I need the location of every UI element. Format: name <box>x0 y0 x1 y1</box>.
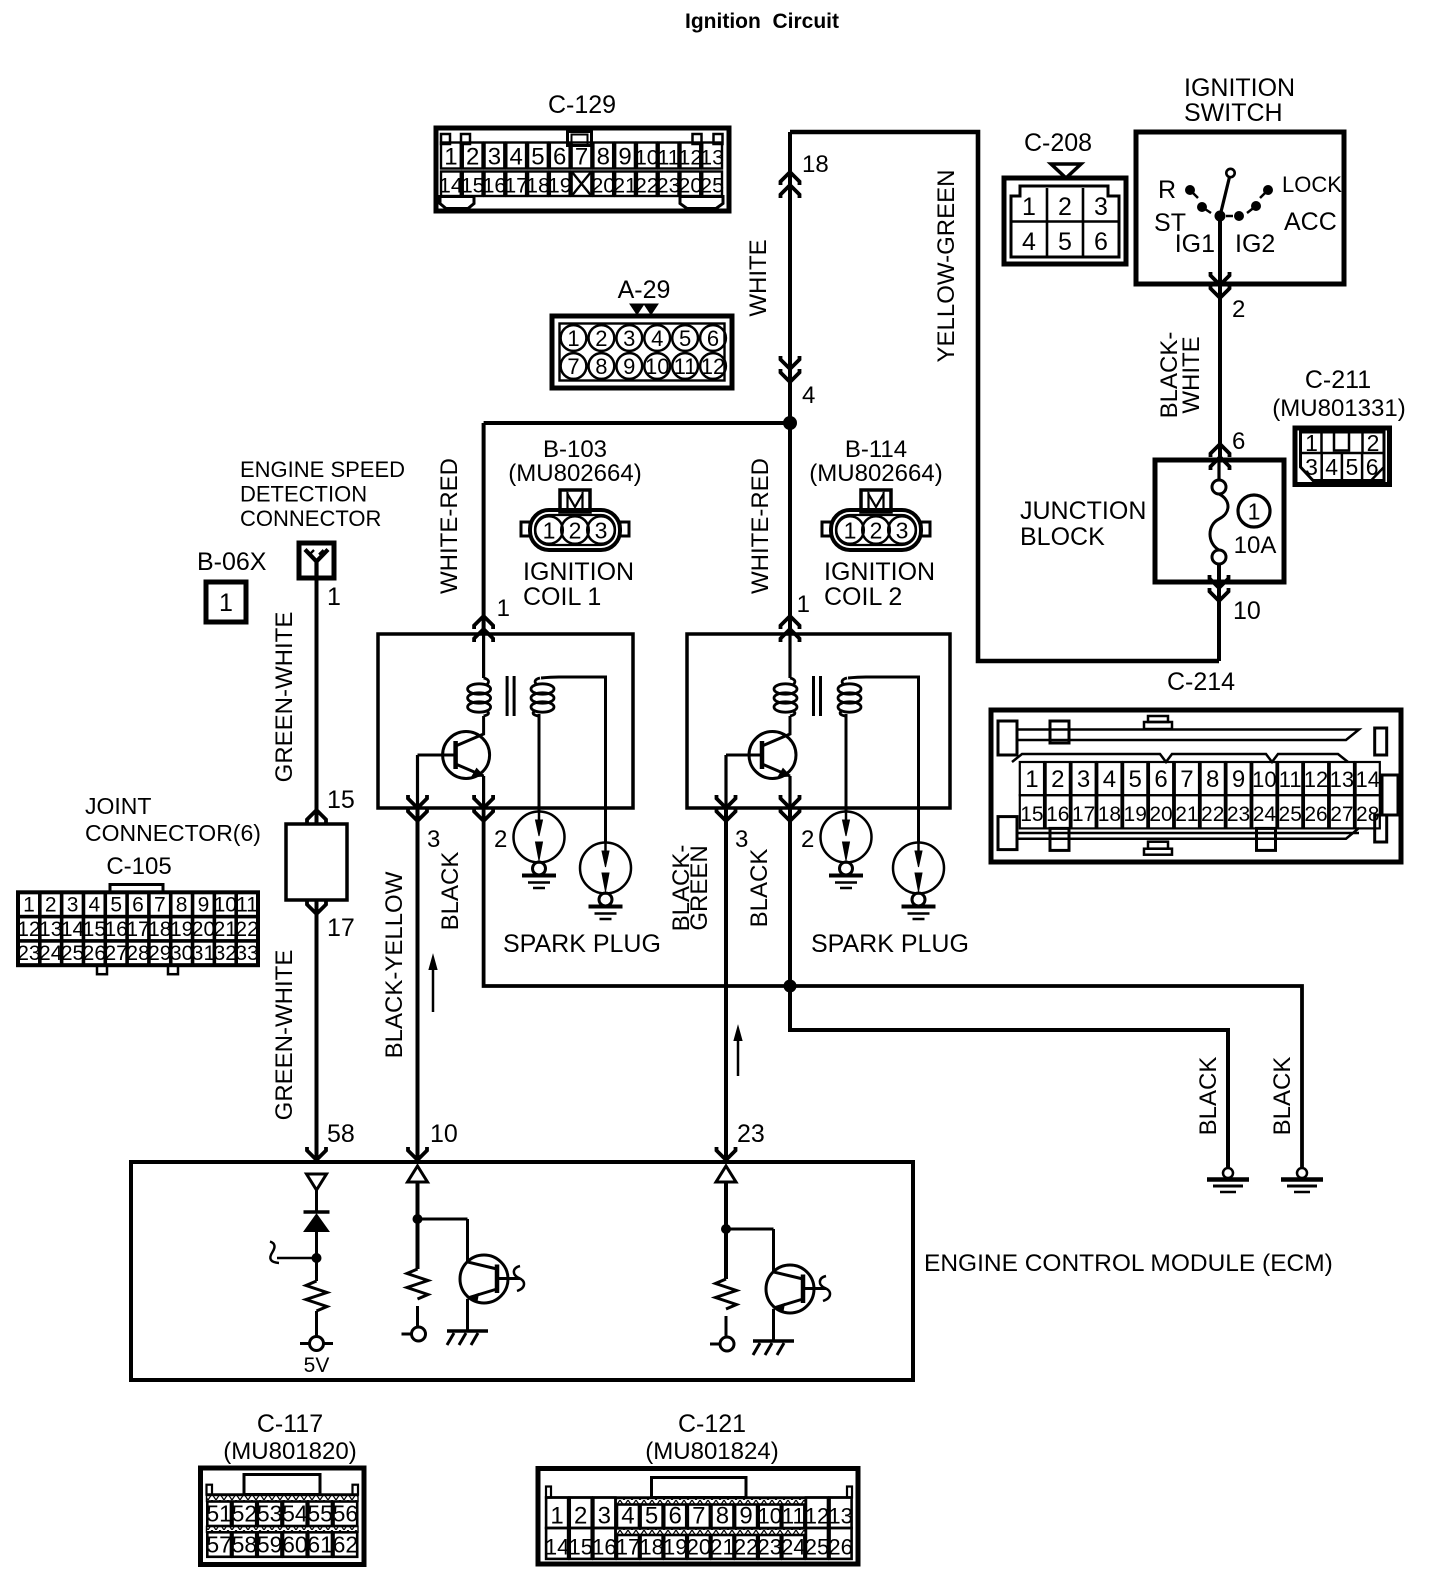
label ENGINE CONTROL MODULE (ECM) <box>924 1250 1333 1277</box>
svg-text:A-29: A-29 <box>618 276 671 304</box>
svg-text:17: 17 <box>126 918 149 941</box>
svg-text:JUNCTION: JUNCTION <box>1020 497 1146 525</box>
svg-text:17: 17 <box>1072 803 1095 826</box>
pin 18 label <box>802 151 829 178</box>
svg-text:52: 52 <box>232 1501 258 1527</box>
svg-text:GREEN-WHITE: GREEN-WHITE <box>271 612 298 783</box>
svg-text:8: 8 <box>597 144 610 171</box>
svg-text:C-208: C-208 <box>1024 129 1092 157</box>
label WHITE-RED coil2 <box>747 458 774 594</box>
label YELLOW-GREEN <box>933 170 960 363</box>
svg-text:ACC: ACC <box>1284 208 1337 236</box>
connector C-214 <box>991 668 1401 862</box>
svg-text:7: 7 <box>692 1503 705 1530</box>
label WHITE-RED coil1 <box>436 458 463 594</box>
svg-text:18: 18 <box>526 174 550 198</box>
svg-text:3: 3 <box>598 1503 611 1530</box>
svg-text:54: 54 <box>282 1501 308 1527</box>
pin 1 label <box>327 583 341 611</box>
svg-text:2: 2 <box>870 518 883 544</box>
svg-text:BLACK-YELLOW: BLACK-YELLOW <box>381 871 408 1058</box>
svg-text:15: 15 <box>461 174 485 198</box>
svg-text:5V: 5V <box>304 1354 330 1377</box>
junction block box <box>1020 460 1284 582</box>
wire WHITE vertical <box>788 132 792 634</box>
svg-text:(MU801331): (MU801331) <box>1272 395 1405 422</box>
svg-text:61: 61 <box>307 1532 333 1558</box>
svg-text:C-214: C-214 <box>1167 668 1235 696</box>
chevrons coil2 pin 3 <box>717 795 736 821</box>
svg-text:22: 22 <box>1201 803 1224 826</box>
svg-text:9: 9 <box>1232 766 1245 793</box>
svg-text:2: 2 <box>801 826 814 853</box>
svg-text:9: 9 <box>618 144 631 171</box>
svg-text:15: 15 <box>327 786 355 814</box>
svg-text:25: 25 <box>1279 803 1302 826</box>
svg-text:23: 23 <box>757 1535 781 1560</box>
svg-text:11: 11 <box>657 146 679 170</box>
svg-text:JOINT: JOINT <box>85 793 151 819</box>
connector A-29 <box>552 276 732 388</box>
ECM internal branch pin 58 (diode, resistor, 5V) <box>270 1174 333 1377</box>
svg-text:14: 14 <box>61 918 85 941</box>
svg-text:R: R <box>1158 176 1176 204</box>
svg-text:28: 28 <box>126 942 149 965</box>
svg-text:IGNITION: IGNITION <box>824 558 935 586</box>
svg-text:ENGINE CONTROL MODULE (ECM): ENGINE CONTROL MODULE (ECM) <box>924 1250 1333 1277</box>
svg-text:16: 16 <box>105 918 128 941</box>
svg-text:10: 10 <box>214 894 237 917</box>
pin 58 label <box>327 1120 355 1148</box>
label engine speed detection connector <box>240 457 405 531</box>
direction arrow coil2 branch <box>734 1026 742 1076</box>
svg-text:23: 23 <box>1227 803 1250 826</box>
svg-text:27: 27 <box>1330 803 1353 826</box>
svg-text:12: 12 <box>17 918 40 941</box>
svg-text:21: 21 <box>613 174 637 198</box>
svg-text:25: 25 <box>61 942 84 965</box>
svg-text:2: 2 <box>1058 193 1072 221</box>
svg-text:9: 9 <box>198 894 210 917</box>
svg-text:31: 31 <box>192 942 215 965</box>
chevrons coil1 pin 1 <box>474 616 493 642</box>
svg-text:WHITE: WHITE <box>1178 336 1205 413</box>
svg-text:BLACK: BLACK <box>437 852 464 931</box>
svg-text:24: 24 <box>1253 803 1277 826</box>
svg-text:10: 10 <box>635 146 659 170</box>
svg-text:4: 4 <box>1325 454 1338 480</box>
svg-text:COIL 1: COIL 1 <box>523 583 601 611</box>
svg-text:B-103: B-103 <box>543 436 607 463</box>
svg-text:YELLOW-GREEN: YELLOW-GREEN <box>933 170 960 363</box>
svg-text:2: 2 <box>569 518 582 544</box>
svg-text:24: 24 <box>39 942 63 965</box>
ground symbol 2 <box>1281 1168 1323 1192</box>
svg-text:25: 25 <box>805 1535 829 1560</box>
svg-text:10: 10 <box>645 354 669 379</box>
svg-text:5: 5 <box>1346 454 1359 480</box>
svg-text:13: 13 <box>39 918 62 941</box>
svg-text:6: 6 <box>1232 428 1245 455</box>
chevrons coil2 pin 1 <box>781 616 800 642</box>
svg-text:11: 11 <box>782 1504 805 1529</box>
svg-text:C-129: C-129 <box>548 91 616 119</box>
svg-text:17: 17 <box>504 174 528 198</box>
svg-text:18: 18 <box>639 1535 663 1560</box>
svg-text:20: 20 <box>687 1535 711 1560</box>
svg-text:57: 57 <box>206 1532 232 1558</box>
wire BLACK coil1 pin2 to ground <box>484 808 1302 1169</box>
svg-text:WHITE: WHITE <box>745 239 772 316</box>
svg-text:29: 29 <box>148 942 171 965</box>
svg-text:8: 8 <box>176 894 188 917</box>
svg-text:20: 20 <box>678 174 702 198</box>
ignition coil 1 <box>378 634 633 843</box>
chevrons above junction block <box>1211 444 1230 470</box>
svg-text:8: 8 <box>716 1503 729 1530</box>
svg-text:58: 58 <box>232 1532 258 1558</box>
label BLACK coil1 pin2 <box>437 852 464 931</box>
svg-text:2: 2 <box>45 894 57 917</box>
ignition coil 2 <box>687 634 950 843</box>
label SPARK PLUG right <box>811 930 969 958</box>
svg-text:19: 19 <box>548 174 572 198</box>
chevrons pin 4 <box>781 356 800 382</box>
label BLACK-YELLOW <box>381 871 408 1058</box>
coil1 pin 2 label <box>494 826 507 853</box>
wire WHITE-RED coil 1 <box>482 423 486 634</box>
svg-text:1: 1 <box>797 591 810 618</box>
svg-text:BLACK: BLACK <box>1195 1057 1222 1136</box>
svg-text:22: 22 <box>635 174 659 198</box>
svg-text:11: 11 <box>1279 767 1302 792</box>
label BLACK coil2 pin2 <box>746 849 773 928</box>
svg-text:7: 7 <box>154 894 166 917</box>
svg-text:3: 3 <box>427 826 440 853</box>
svg-text:25: 25 <box>700 174 724 198</box>
svg-text:20: 20 <box>192 918 215 941</box>
svg-text:19: 19 <box>170 918 193 941</box>
connector C-208 <box>1004 129 1126 264</box>
svg-text:IG2: IG2 <box>1235 230 1275 258</box>
svg-text:1: 1 <box>327 583 341 611</box>
coil1 pin 1 label <box>497 595 510 622</box>
svg-text:9: 9 <box>739 1503 752 1530</box>
chevrons below ignition switch <box>1211 272 1230 298</box>
svg-text:6: 6 <box>132 894 144 917</box>
svg-text:B-114: B-114 <box>845 436 907 463</box>
svg-text:4: 4 <box>1022 228 1036 256</box>
node ground wires junction <box>784 980 797 993</box>
svg-text:23: 23 <box>657 174 681 198</box>
svg-text:23: 23 <box>737 1120 765 1148</box>
ECM internal branch pin 10 (resistor, transistor) <box>402 1166 525 1345</box>
svg-text:IGNITION: IGNITION <box>1184 74 1295 102</box>
svg-text:11: 11 <box>236 894 258 917</box>
svg-text:15: 15 <box>83 918 106 941</box>
chevron pin 15 <box>307 810 326 823</box>
svg-text:22: 22 <box>235 918 258 941</box>
connector C-117 <box>201 1410 365 1565</box>
svg-text:1: 1 <box>844 518 857 544</box>
svg-text:2: 2 <box>574 1503 587 1530</box>
svg-text:10: 10 <box>757 1504 781 1529</box>
connector C-211 <box>1272 366 1405 485</box>
svg-text:4: 4 <box>89 894 101 917</box>
svg-text:59: 59 <box>257 1532 283 1558</box>
svg-text:60: 60 <box>282 1532 308 1558</box>
svg-text:55: 55 <box>307 1501 333 1527</box>
svg-text:B-06X: B-06X <box>197 548 267 576</box>
spark plug coil2 B <box>893 843 944 920</box>
chevrons pin 18 <box>781 172 800 198</box>
chevron ECM pin 58 <box>307 1147 326 1160</box>
connector C-129 <box>436 91 729 211</box>
svg-text:BLACK: BLACK <box>746 849 773 928</box>
connector C-105 <box>17 793 261 974</box>
svg-text:5: 5 <box>531 144 544 171</box>
label GREEN-WHITE lower <box>271 950 298 1121</box>
svg-text:DETECTION: DETECTION <box>240 482 367 507</box>
direction arrow coil1 branch <box>429 955 437 1012</box>
svg-text:18: 18 <box>1098 803 1121 826</box>
svg-text:4: 4 <box>621 1503 634 1530</box>
svg-text:10A: 10A <box>1234 532 1277 559</box>
svg-text:33: 33 <box>235 942 258 965</box>
svg-text:11: 11 <box>674 354 697 379</box>
spark plug coil2 A <box>821 812 872 889</box>
svg-text:21: 21 <box>710 1535 734 1560</box>
svg-text:6: 6 <box>669 1503 682 1530</box>
label BLACK-WHITE <box>1156 332 1205 419</box>
svg-text:62: 62 <box>333 1532 359 1558</box>
svg-text:IGNITION: IGNITION <box>523 558 634 586</box>
svg-text:1: 1 <box>219 589 233 617</box>
svg-text:3: 3 <box>1305 454 1318 480</box>
pin 15 label <box>327 786 355 814</box>
svg-text:1: 1 <box>1025 766 1038 793</box>
ground symbol 1 <box>1207 1168 1249 1192</box>
svg-text:15: 15 <box>1020 803 1043 826</box>
svg-text:1: 1 <box>550 1503 563 1530</box>
label BLACK ground wire 2 <box>1269 1057 1296 1136</box>
svg-text:15: 15 <box>568 1535 592 1560</box>
svg-text:2: 2 <box>595 326 607 351</box>
svg-text:12: 12 <box>678 146 702 170</box>
svg-text:BLACK: BLACK <box>1269 1057 1296 1136</box>
svg-text:SPARK PLUG: SPARK PLUG <box>503 930 661 958</box>
svg-text:COIL 2: COIL 2 <box>824 583 902 611</box>
svg-text:1: 1 <box>567 326 579 351</box>
ECM box <box>131 1162 913 1380</box>
pin 10 label <box>430 1120 458 1148</box>
svg-text:12: 12 <box>805 1504 829 1529</box>
svg-text:53: 53 <box>257 1501 283 1527</box>
wire GREEN-WHITE lower <box>315 900 319 1162</box>
node junction WHITE-RED split <box>783 416 797 430</box>
svg-text:13: 13 <box>828 1504 852 1529</box>
coil2 pin 1 label <box>797 591 810 618</box>
wire BLACK-YELLOW coil1 pin3 to ECM <box>416 808 420 1162</box>
pin 2 label <box>1232 296 1245 323</box>
svg-text:17: 17 <box>616 1535 640 1560</box>
svg-text:16: 16 <box>482 174 506 198</box>
svg-text:3: 3 <box>1077 766 1090 793</box>
svg-text:SWITCH: SWITCH <box>1184 99 1283 127</box>
svg-text:WHITE-RED: WHITE-RED <box>436 458 463 594</box>
connector ref box 1 <box>206 582 246 622</box>
svg-text:17: 17 <box>327 914 355 942</box>
svg-text:10: 10 <box>1233 597 1261 625</box>
wire BLACK coil2 pin2 to ground <box>790 808 1228 1169</box>
svg-text:9: 9 <box>623 354 635 379</box>
svg-text:2: 2 <box>1051 766 1064 793</box>
label WHITE <box>745 239 772 316</box>
svg-text:18: 18 <box>802 151 829 178</box>
ignition switch <box>1136 74 1344 284</box>
svg-text:10: 10 <box>1252 767 1276 792</box>
connector C-121 <box>538 1410 858 1564</box>
chevrons coil2 pin 2 <box>781 795 800 821</box>
svg-text:56: 56 <box>333 1501 359 1527</box>
label GREEN-WHITE upper <box>271 612 298 783</box>
svg-text:7: 7 <box>575 144 588 171</box>
svg-text:IG1: IG1 <box>1175 230 1215 258</box>
svg-text:LOCK: LOCK <box>1282 172 1342 197</box>
svg-text:(MU801820): (MU801820) <box>223 1438 356 1465</box>
coil2 pin 2 label <box>801 826 814 853</box>
svg-text:GREEN-WHITE: GREEN-WHITE <box>271 950 298 1121</box>
pin 6 label <box>1232 428 1245 455</box>
svg-text:20: 20 <box>591 174 615 198</box>
chevron ECM pin 10 <box>408 1147 427 1160</box>
svg-text:GREEN: GREEN <box>686 845 713 930</box>
svg-text:14: 14 <box>545 1535 569 1560</box>
svg-text:4: 4 <box>651 326 663 351</box>
svg-text:26: 26 <box>83 942 106 965</box>
svg-text:1: 1 <box>444 144 457 171</box>
svg-text:6: 6 <box>1154 766 1167 793</box>
svg-text:3: 3 <box>488 144 501 171</box>
svg-text:(MU801824): (MU801824) <box>645 1438 778 1465</box>
svg-text:1: 1 <box>1022 193 1036 221</box>
svg-text:23: 23 <box>17 942 40 965</box>
title Ignition Circuit <box>685 10 839 33</box>
svg-text:C-121: C-121 <box>678 1410 746 1438</box>
ECM internal branch pin 23 (resistor, transistor) <box>710 1166 830 1355</box>
wire ignition switch IG1 to junction block <box>1218 216 1222 460</box>
svg-text:4: 4 <box>510 144 523 171</box>
pin 10 label junction <box>1233 597 1261 625</box>
svg-text:5: 5 <box>679 326 691 351</box>
svg-text:2: 2 <box>466 144 479 171</box>
coil1 pin 3 label <box>427 826 440 853</box>
svg-text:12: 12 <box>1304 767 1328 792</box>
svg-text:CONNECTOR: CONNECTOR <box>240 506 381 531</box>
pin 17 label <box>327 914 355 942</box>
svg-text:32: 32 <box>214 942 237 965</box>
svg-text:6: 6 <box>707 326 719 351</box>
svg-text:19: 19 <box>663 1535 687 1560</box>
svg-text:(MU802664): (MU802664) <box>508 460 641 487</box>
svg-text:30: 30 <box>170 942 193 965</box>
coil2 pin 3 label <box>735 826 748 853</box>
svg-text:8: 8 <box>595 354 607 379</box>
wire GREEN-WHITE upper <box>315 578 319 824</box>
svg-text:SPARK PLUG: SPARK PLUG <box>811 930 969 958</box>
wire junction block to coils (YELLOW-GREEN loop) <box>790 132 1219 661</box>
wire BLACK-GREEN coil2 pin3 to ECM <box>724 808 728 1162</box>
svg-text:27: 27 <box>105 942 128 965</box>
chevron pin 17 <box>307 901 326 914</box>
svg-text:C-117: C-117 <box>257 1410 323 1438</box>
svg-text:19: 19 <box>1124 803 1147 826</box>
svg-text:2: 2 <box>494 826 507 853</box>
svg-text:14: 14 <box>439 174 463 198</box>
joint box on green-white wire <box>286 824 347 900</box>
svg-text:C-105: C-105 <box>106 853 171 880</box>
svg-text:1: 1 <box>543 518 556 544</box>
label B-06X <box>197 548 267 576</box>
svg-text:ENGINE SPEED: ENGINE SPEED <box>240 457 405 482</box>
chevrons coil1 pin 2 <box>474 795 493 821</box>
pin 4 label <box>802 382 815 409</box>
spark plug coil1 A <box>514 812 565 889</box>
svg-text:58: 58 <box>327 1120 355 1148</box>
svg-text:6: 6 <box>553 144 566 171</box>
svg-text:21: 21 <box>1175 803 1198 826</box>
svg-text:3: 3 <box>623 326 635 351</box>
svg-text:1: 1 <box>497 595 510 622</box>
svg-text:14: 14 <box>1355 767 1379 792</box>
svg-text:16: 16 <box>1046 803 1069 826</box>
svg-text:Ignition Circuit: Ignition Circuit <box>685 10 839 33</box>
svg-text:5: 5 <box>1129 766 1142 793</box>
svg-text:7: 7 <box>567 354 579 379</box>
connector B-114 <box>809 436 942 611</box>
svg-text:1: 1 <box>23 894 35 917</box>
chevron ECM pin 23 <box>717 1147 736 1160</box>
svg-text:4: 4 <box>1103 766 1116 793</box>
label BLACK-GREEN <box>668 845 713 932</box>
svg-text:3: 3 <box>595 518 608 544</box>
svg-text:26: 26 <box>1304 803 1327 826</box>
svg-text:22: 22 <box>734 1535 758 1560</box>
svg-text:21: 21 <box>214 918 237 941</box>
svg-text:3: 3 <box>1094 193 1108 221</box>
svg-text:10: 10 <box>430 1120 458 1148</box>
svg-text:3: 3 <box>67 894 79 917</box>
svg-text:5: 5 <box>1058 228 1072 256</box>
svg-text:18: 18 <box>148 918 171 941</box>
svg-text:4: 4 <box>802 382 815 409</box>
connector B-06X <box>299 543 334 578</box>
label BLACK ground wire 1 <box>1195 1057 1222 1136</box>
svg-text:2: 2 <box>1232 296 1245 323</box>
svg-text:6: 6 <box>1094 228 1108 256</box>
svg-text:7: 7 <box>1180 766 1193 793</box>
svg-text:1: 1 <box>1248 499 1261 525</box>
svg-text:12: 12 <box>701 354 725 379</box>
svg-text:6: 6 <box>1366 454 1379 480</box>
svg-text:C-211: C-211 <box>1305 366 1371 394</box>
svg-text:CONNECTOR(6): CONNECTOR(6) <box>85 820 261 846</box>
svg-text:WHITE-RED: WHITE-RED <box>747 458 774 594</box>
svg-text:26: 26 <box>828 1535 852 1560</box>
svg-text:13: 13 <box>1330 767 1354 792</box>
fuse 1 10A <box>1210 460 1276 582</box>
svg-text:5: 5 <box>110 894 122 917</box>
